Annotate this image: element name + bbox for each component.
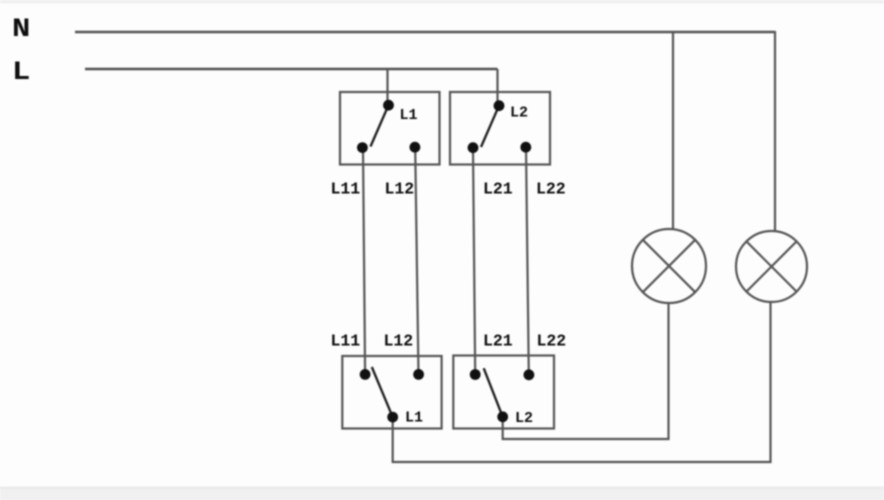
S1 common terminal dot <box>383 100 394 111</box>
S2 terminal L22 dot <box>520 142 531 153</box>
svg-text:L2: L2 <box>510 105 528 122</box>
switch S4 box (bottom right) <box>453 356 554 429</box>
lamp E2 <box>736 231 807 302</box>
wire S3 common to lamp E2 bottom <box>393 302 771 462</box>
wire N end down to lamp E2 top <box>774 31 776 232</box>
switch S3 box (bottom left) <box>342 356 441 429</box>
S4 terminal L22 dot <box>524 369 535 380</box>
svg-text:L22: L22 <box>536 180 566 199</box>
wire L to switch S1 common <box>386 69 388 105</box>
svg-text:L22: L22 <box>537 332 567 351</box>
S4 terminal L21 dot <box>470 369 481 380</box>
wire L bus <box>85 68 498 71</box>
bottom light band <box>0 487 884 500</box>
svg-text:L2: L2 <box>515 410 533 427</box>
S1 terminal L11 dot <box>357 142 368 153</box>
S3 terminal L12 dot <box>413 369 424 380</box>
switch S4 lever <box>484 368 503 417</box>
svg-text:L21: L21 <box>483 180 513 199</box>
svg-text:L: L <box>12 57 30 88</box>
S3 terminal L11 dot <box>360 369 371 380</box>
wire S4 common to lamp E1 bottom <box>503 303 669 439</box>
S2 terminal L21 dot <box>468 142 479 153</box>
svg-text:L12: L12 <box>385 180 415 199</box>
S4 common terminal dot <box>497 411 508 422</box>
wire S2 L21 to S4 L21 <box>473 148 475 375</box>
wire S1 L12 to S3 L12 <box>415 147 418 374</box>
switch S1 box (top left) <box>340 92 440 165</box>
svg-text:L12: L12 <box>384 332 414 351</box>
svg-text:L21: L21 <box>483 332 513 351</box>
svg-text:N: N <box>12 14 30 45</box>
top light band <box>0 0 884 4</box>
svg-text:L1: L1 <box>405 410 423 427</box>
wire L to switch S2 common <box>496 69 498 106</box>
S3 common terminal dot <box>387 412 398 423</box>
switch S2 lever <box>481 106 499 147</box>
switch S3 lever <box>372 367 393 417</box>
switch S1 lever <box>371 105 389 146</box>
wire N to lamp E1 top <box>672 32 674 230</box>
wire S1 L11 to S3 L11 <box>363 148 365 374</box>
wire S2 L22 to S4 L22 <box>526 147 529 374</box>
switch S2 box (top right) <box>450 92 550 165</box>
svg-text:L11: L11 <box>331 180 361 199</box>
svg-text:L1: L1 <box>400 107 418 124</box>
wire N bus <box>75 31 775 34</box>
S2 common terminal dot <box>494 100 505 111</box>
lamp E1 <box>632 229 706 303</box>
S1 terminal L12 dot <box>410 142 421 153</box>
svg-text:L11: L11 <box>331 332 361 351</box>
